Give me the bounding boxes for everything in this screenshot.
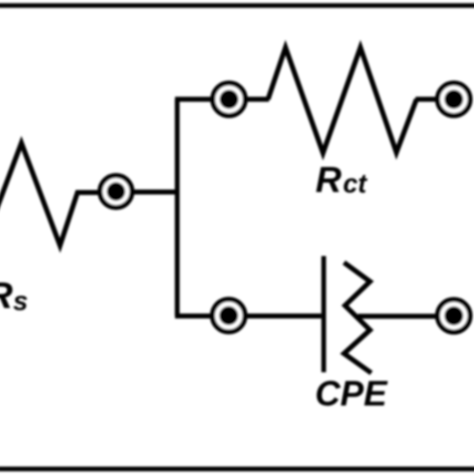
- label CPE: [315, 375, 389, 414]
- node E: [438, 300, 471, 333]
- resistor R1 Rct: [268, 48, 417, 154]
- svg-text:CPE: CPE: [315, 375, 389, 414]
- capacitor CPE: [324, 256, 372, 373]
- wire node A to junction: [134, 190, 178, 195]
- wire node B to Rct: [247, 97, 270, 102]
- wire bottom branch: [175, 314, 211, 319]
- wire top branch: [175, 97, 212, 102]
- node A: [100, 176, 132, 208]
- label Rs: [0, 275, 28, 316]
- svg-text:s: s: [13, 286, 28, 316]
- border top bar: [0, 3, 474, 8]
- node D: [212, 299, 245, 332]
- label Rct: [316, 159, 368, 200]
- wire node D to CPE: [246, 314, 321, 319]
- svg-text:ct: ct: [343, 169, 368, 199]
- resistor Rs: [0, 143, 98, 246]
- wire Rct to node C: [416, 97, 437, 102]
- node B: [213, 83, 246, 116]
- wire CPE to node E: [358, 314, 436, 319]
- svg-text:R: R: [316, 159, 342, 200]
- border bottom bar: [0, 467, 474, 472]
- svg-text:R: R: [0, 275, 13, 316]
- wire vertical branch: [175, 99, 180, 316]
- node C: [438, 83, 471, 116]
